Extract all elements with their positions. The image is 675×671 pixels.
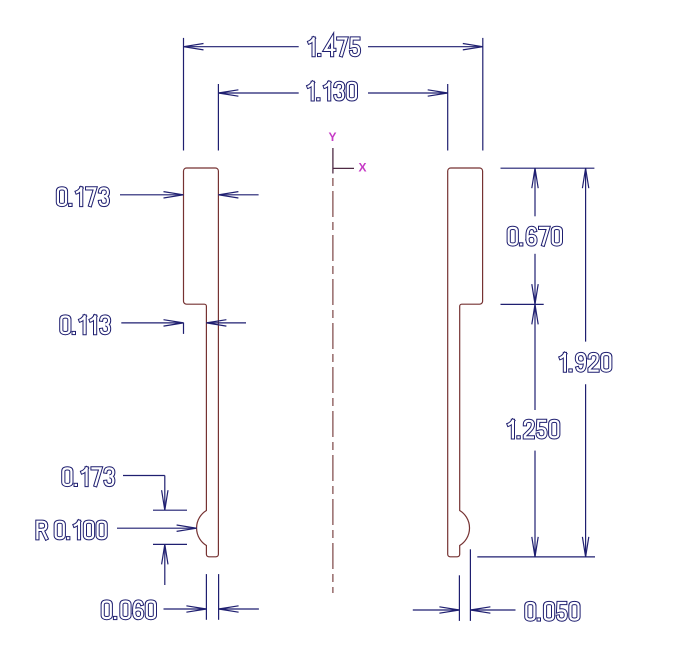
dim 0.113 — [121, 322, 183, 324]
label 1.250 — [509, 421, 559, 438]
right side extension lines — [501, 167, 595, 169]
dim 0.050 — [458, 575, 460, 621]
dim 1.250 — [534, 304, 536, 410]
label 0.060 — [103, 602, 155, 619]
label 1.475 — [309, 39, 359, 56]
left profile outline — [184, 168, 219, 557]
axis marker — [333, 148, 354, 174]
leader R 0.100 — [117, 527, 197, 529]
label 0.173 — [58, 188, 108, 205]
centerline — [332, 178, 334, 593]
label R 0.100 — [37, 522, 105, 539]
label 0.173 — [63, 468, 113, 485]
label 1.920 — [561, 354, 611, 371]
right profile outline — [448, 168, 483, 557]
dim 0.670 — [534, 168, 536, 216]
dim 1.920 — [585, 168, 587, 341]
svg-text:Y: Y — [329, 130, 337, 144]
label 0.050 — [526, 603, 578, 620]
dim 1.475 — [183, 38, 185, 151]
dim 0.173 bottom-left — [123, 475, 165, 477]
dim 0.173 top — [120, 194, 184, 196]
label 1.130 — [309, 83, 356, 100]
dim 0.060 — [205, 574, 207, 620]
dim 1.130 — [217, 84, 219, 151]
svg-text:X: X — [359, 161, 367, 175]
label 0.670 — [509, 228, 561, 245]
label 0.113 — [61, 317, 109, 334]
